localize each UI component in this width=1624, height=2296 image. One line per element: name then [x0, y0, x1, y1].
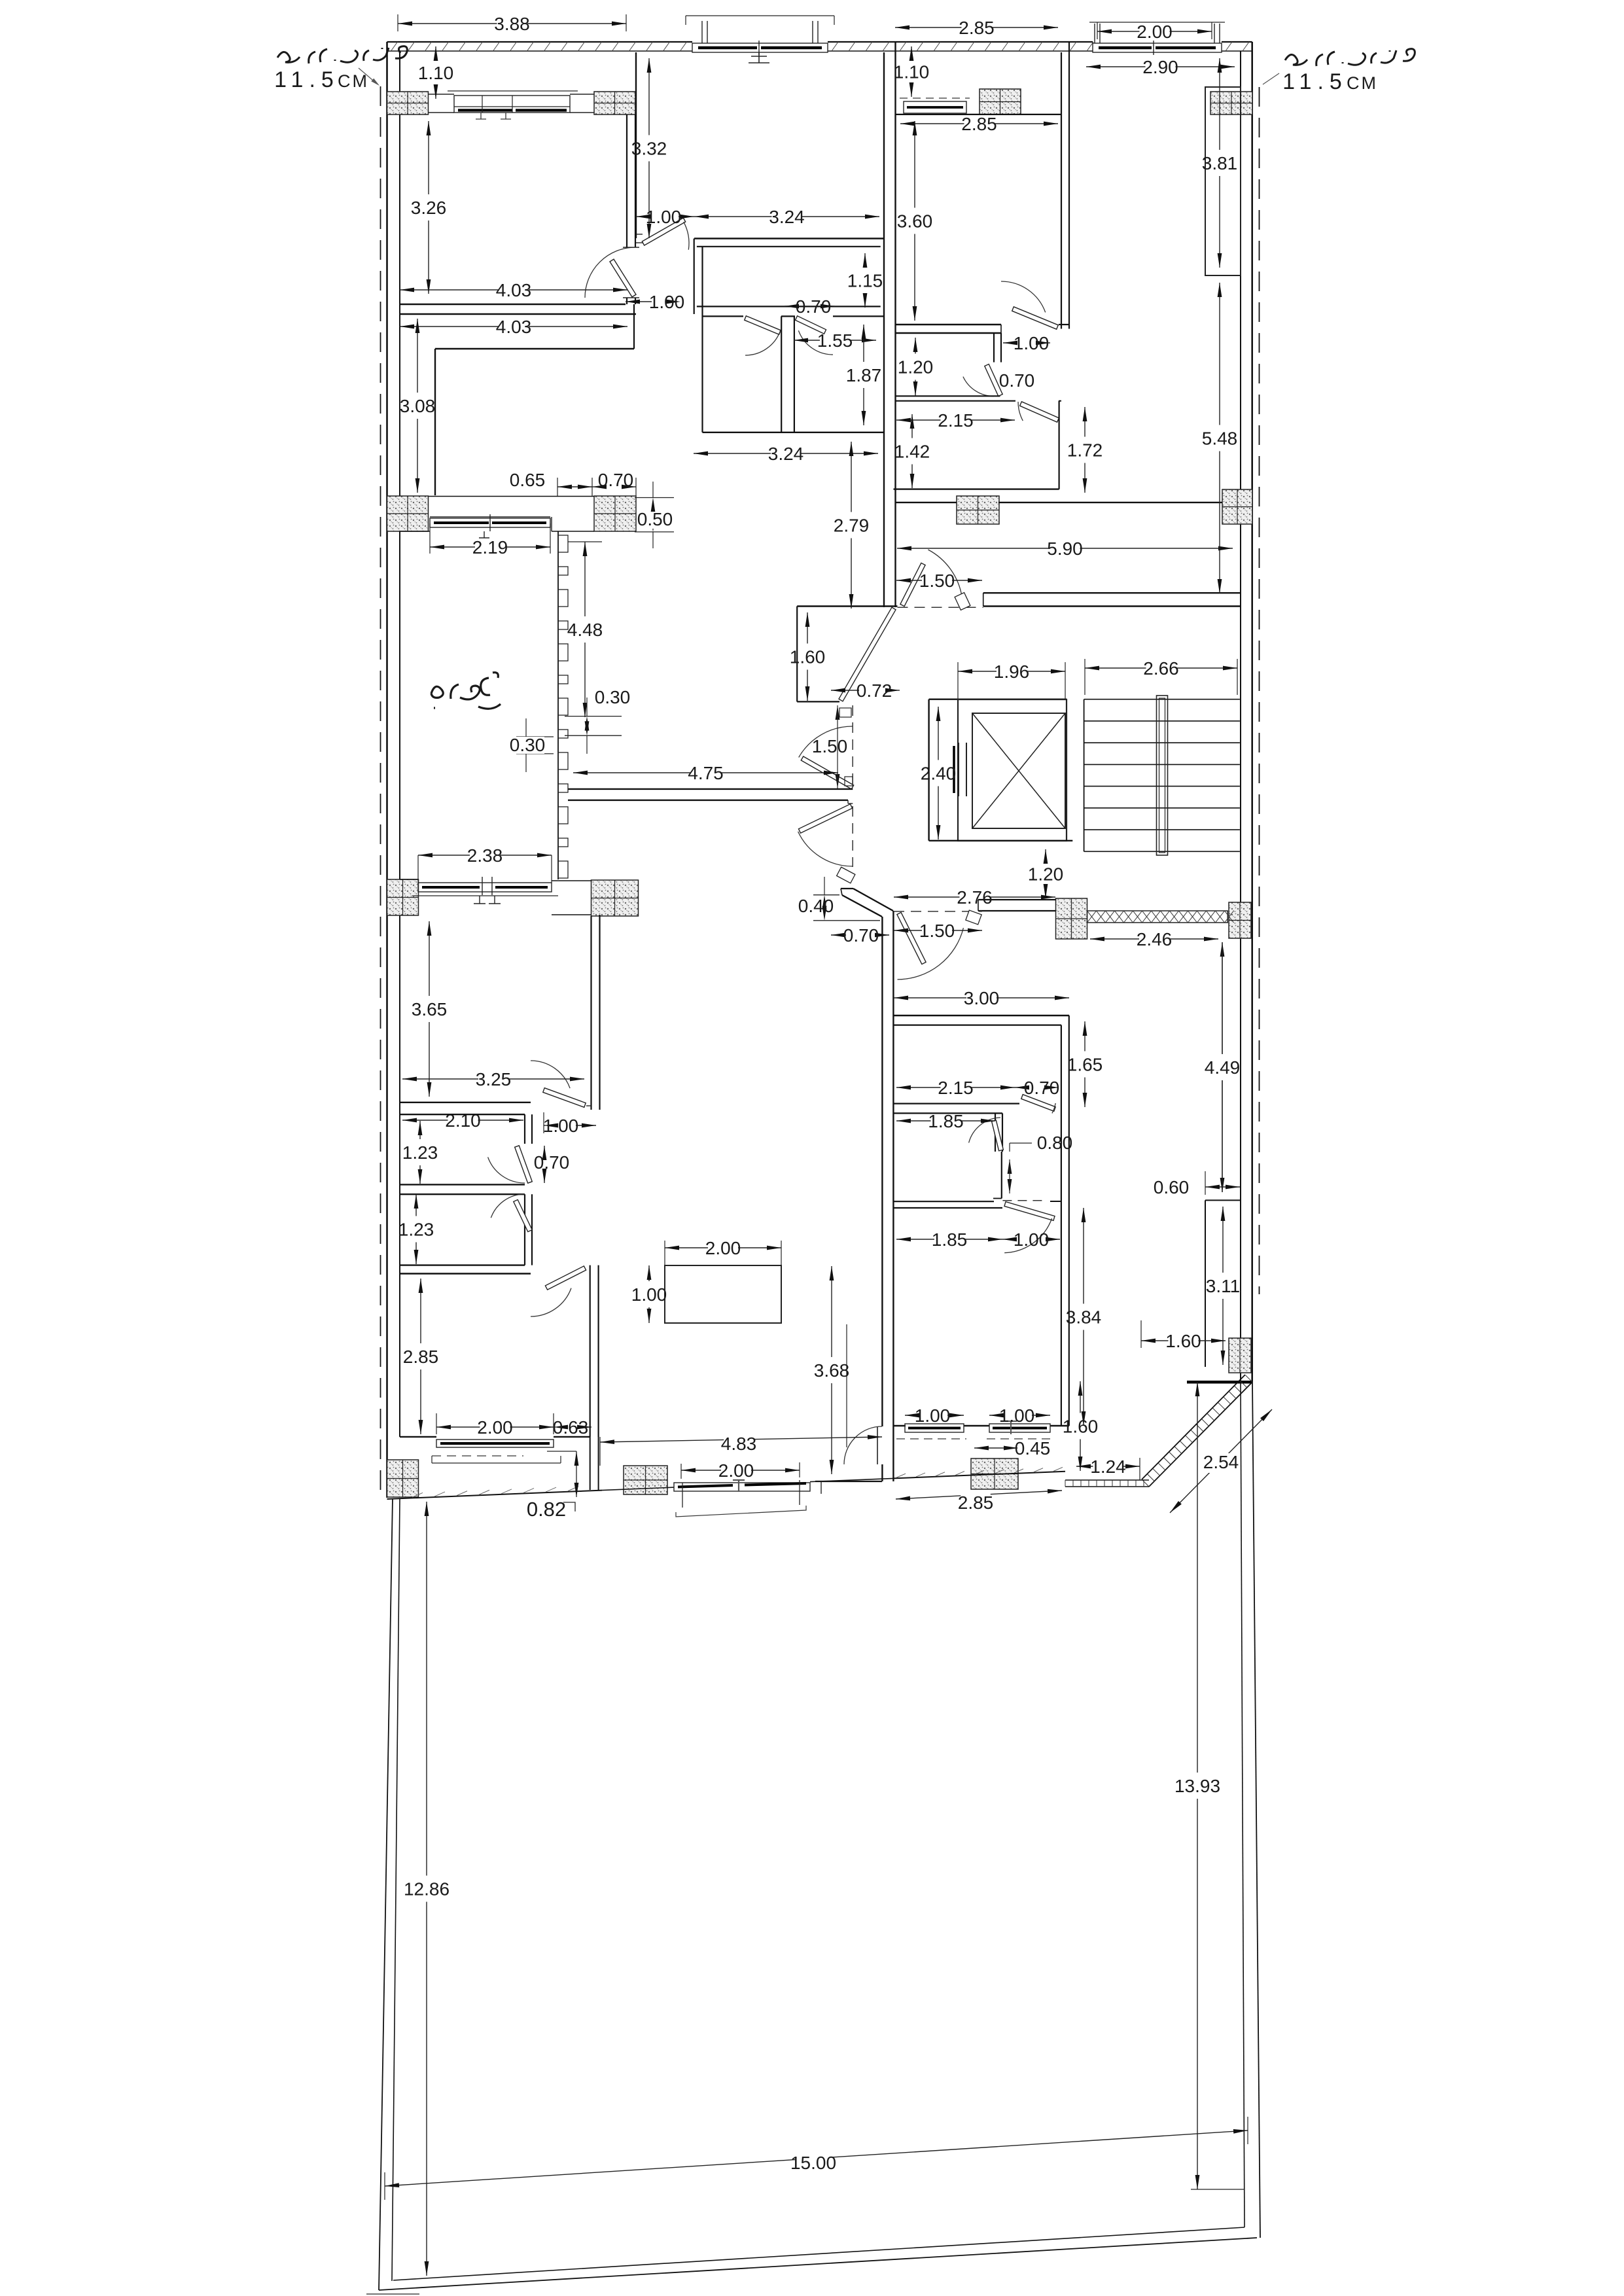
expansion joint dashed line (right) [1259, 87, 1260, 1294]
apartment entry door left unit (0.72/1.60) [839, 607, 896, 701]
svg-text:1.65: 1.65 [1067, 1055, 1103, 1075]
bedroom bottom wall + windows [894, 1425, 906, 1426]
svg-text:5.48: 5.48 [1202, 429, 1238, 449]
door 0.70 room1 [515, 1146, 533, 1183]
column C9 [387, 879, 419, 915]
bedroom1 bottom wall [400, 304, 626, 305]
svg-text:0.70: 0.70 [843, 925, 879, 945]
svg-text:0.70: 0.70 [534, 1152, 570, 1173]
top exterior wall (hatched) [387, 41, 693, 43]
door room2.85 [545, 1266, 586, 1290]
svg-text:2.00: 2.00 [1137, 22, 1173, 42]
svg-text:11.5: 11.5 [274, 67, 340, 92]
door 1.00 room3.60 [1012, 307, 1059, 329]
svg-text:4.83: 4.83 [721, 1434, 757, 1454]
svg-text:2.85: 2.85 [958, 1492, 994, 1513]
svg-text:0.82: 0.82 [527, 1498, 566, 1521]
svg-text:3.81: 3.81 [1202, 153, 1238, 173]
svg-text:2.10: 2.10 [445, 1110, 481, 1131]
svg-text:3.24: 3.24 [768, 444, 804, 464]
svg-text:3.68: 3.68 [814, 1360, 850, 1381]
svg-text:4.03: 4.03 [496, 317, 532, 337]
svg-text:2.54: 2.54 [1203, 1452, 1239, 1472]
svg-text:1.50: 1.50 [812, 736, 848, 756]
svg-text:2.79: 2.79 [834, 516, 870, 536]
svg-text:4.03: 4.03 [496, 280, 532, 300]
column C7 [957, 496, 999, 524]
svg-text:1.85: 1.85 [928, 1111, 964, 1131]
svg-text:3.60: 3.60 [897, 211, 933, 232]
svg-text:1.20: 1.20 [898, 357, 934, 378]
duct 3.81 [1205, 87, 1241, 275]
svg-text:1.42: 1.42 [894, 442, 930, 462]
column C12 [1229, 902, 1251, 938]
bay window 2.00 at bottom center [674, 1483, 810, 1491]
svg-text:1.96: 1.96 [994, 662, 1030, 682]
svg-text:1.00: 1.00 [631, 1284, 667, 1305]
svg-text:1.10: 1.10 [894, 62, 930, 82]
svg-text:3.24: 3.24 [769, 207, 805, 227]
svg-text:1.15: 1.15 [847, 271, 883, 291]
svg-text:2.19: 2.19 [472, 537, 508, 557]
corner ticks [366, 2293, 419, 2295]
apartment entry door right unit [898, 607, 983, 608]
svg-text:1.00: 1.00 [649, 292, 685, 312]
svg-text:4.75: 4.75 [688, 763, 724, 783]
bath walls [1058, 401, 1059, 489]
column C16 [1229, 1338, 1251, 1373]
svg-text:2.46: 2.46 [1137, 929, 1173, 949]
svg-text:11.5: 11.5 [1282, 69, 1348, 94]
oblique boundary with ties [1149, 1382, 1252, 1487]
pantry walls [894, 1112, 1002, 1114]
kitchen bottom wall + door [894, 1103, 1019, 1104]
svg-text:1.00: 1.00 [543, 1116, 579, 1136]
elevator shaft [929, 698, 1067, 699]
svg-text:1.60: 1.60 [1165, 1331, 1201, 1351]
hall bottom / toilets top wall [697, 306, 881, 307]
svg-text:4.49: 4.49 [1205, 1057, 1241, 1078]
bedroom door 1.00 [1002, 1200, 1046, 1201]
pantry door 0.80 [992, 1120, 1004, 1151]
stairs [1084, 699, 1085, 852]
svg-text:1.72: 1.72 [1067, 440, 1103, 461]
svg-text:0.30: 0.30 [510, 735, 546, 755]
toilets divider wall [781, 316, 782, 432]
elevator lobby wall [928, 699, 929, 841]
svg-text:2.00: 2.00 [718, 1460, 754, 1481]
svg-text:1.24: 1.24 [1090, 1457, 1126, 1477]
yard right boundary [1252, 1382, 1260, 2238]
terrace notch 0.60 [1205, 1199, 1241, 1201]
right exterior wall [1251, 42, 1253, 1382]
svg-text:1.20: 1.20 [1028, 864, 1064, 885]
kitchen island 2.00x1.00 [665, 1265, 781, 1323]
lightwell bottom wall [568, 788, 853, 790]
window W1 bedroom1 bay [448, 90, 578, 92]
door 1.50 upper (x1303) [801, 756, 853, 789]
svg-text:0.30: 0.30 [595, 687, 631, 707]
toilets bottom wall [703, 432, 885, 433]
svg-text:3.11: 3.11 [1206, 1276, 1240, 1296]
yard bottom boundary [379, 2238, 1257, 2290]
svg-text:3.65: 3.65 [412, 999, 448, 1019]
room 2.85 right wall [590, 1265, 591, 1437]
room3.60 bottom wall [896, 324, 1002, 325]
svg-text:1.00: 1.00 [1014, 333, 1050, 353]
kitchen right wall [1061, 1025, 1062, 1426]
left exterior wall [386, 42, 388, 1498]
svg-text:CM: CM [338, 71, 369, 91]
right unit terrace strip wall [896, 114, 1062, 115]
small window right unit top [900, 97, 970, 99]
svg-text:2.15: 2.15 [938, 410, 974, 431]
zigzag lightwell wall [557, 531, 559, 879]
toilet doors [745, 316, 781, 334]
svg-text:3.25: 3.25 [476, 1069, 512, 1089]
svg-text:1.00: 1.00 [999, 1405, 1035, 1426]
svg-text:12.86: 12.86 [404, 1879, 450, 1899]
living door to balcony corridor [881, 1464, 883, 1481]
svg-text:CM: CM [1347, 73, 1378, 93]
stairwell top wall [983, 592, 1241, 593]
svg-text:2.90: 2.90 [1142, 57, 1178, 77]
svg-text:3.84: 3.84 [1066, 1307, 1102, 1328]
svg-text:3.00: 3.00 [964, 988, 1000, 1008]
svg-text:3.26: 3.26 [411, 198, 447, 218]
room3.60 right wall [1061, 52, 1062, 329]
bedroom1 right wall [626, 115, 627, 247]
svg-text:1.50: 1.50 [919, 921, 955, 941]
column C8 [1222, 489, 1252, 524]
column C15 [971, 1458, 1018, 1489]
unit divider wall [883, 52, 885, 607]
pantry bottom wall [894, 1201, 994, 1202]
bedroom2 door [642, 218, 685, 245]
column C14 [624, 1466, 667, 1494]
rooms 1.23 walls [400, 1114, 525, 1115]
svg-text:2.15: 2.15 [938, 1078, 974, 1098]
svg-text:2.66: 2.66 [1143, 658, 1179, 679]
dimensions [398, 23, 497, 24]
svg-text:0.70: 0.70 [999, 370, 1035, 391]
svg-text:0.45: 0.45 [1015, 1438, 1051, 1458]
bottom exterior boundary (hatched, sloped) [387, 1491, 603, 1499]
svg-text:1.60: 1.60 [790, 647, 826, 667]
kitchen top wall [894, 1015, 1069, 1016]
lightwell window row (2.19) [430, 516, 550, 518]
svg-text:2.40: 2.40 [921, 764, 957, 784]
svg-text:1.23: 1.23 [402, 1142, 438, 1163]
living room right wall [881, 917, 883, 1426]
column C2 [594, 92, 635, 115]
room 3.65 walls [590, 916, 591, 1110]
svg-text:3.32: 3.32 [631, 139, 667, 159]
svg-text:1.50: 1.50 [919, 571, 955, 591]
title: darz enqita (left) [277, 46, 407, 63]
door 1.50 lower (x1303) [852, 806, 853, 867]
svg-text:2.38: 2.38 [467, 845, 503, 866]
lower-left exterior step walls [590, 1437, 591, 1490]
svg-text:1.85: 1.85 [932, 1229, 968, 1250]
title: darz enqita (right) [1285, 49, 1415, 66]
column C4 [1210, 92, 1252, 115]
svg-text:1.23: 1.23 [398, 1220, 434, 1240]
column C10 [591, 880, 639, 916]
svg-text:0.50: 0.50 [637, 509, 673, 529]
column C1 [387, 92, 429, 115]
noorgir (lightwell) label [431, 673, 501, 709]
column C6 [594, 496, 636, 531]
stair hall bottom wall [978, 899, 1056, 900]
svg-text:2.85: 2.85 [961, 114, 997, 134]
svg-text:1.00: 1.00 [915, 1405, 951, 1426]
elevator bottom wall [929, 840, 1073, 841]
svg-text:4.48: 4.48 [567, 620, 603, 640]
svg-text:0.72: 0.72 [856, 680, 892, 701]
WC 1.20 walls [993, 333, 995, 362]
lightwell lower window row (2.38) [400, 879, 419, 880]
column C3 [980, 89, 1021, 115]
hall-side dashed door lines [852, 705, 853, 788]
svg-text:5.90: 5.90 [1047, 539, 1083, 559]
bedroom2 left wall [635, 52, 637, 238]
svg-text:0.60: 0.60 [1154, 1177, 1190, 1197]
window W3 terrace top [1089, 22, 1225, 23]
svg-text:2.85: 2.85 [403, 1347, 439, 1367]
balcony door 1.50 (stair hall) [894, 911, 982, 912]
svg-text:2.76: 2.76 [957, 887, 993, 908]
svg-text:1.55: 1.55 [817, 330, 853, 351]
svg-text:2.00: 2.00 [705, 1238, 741, 1258]
column C5 [387, 496, 429, 531]
door 0.70 room2 [514, 1200, 532, 1232]
column C11 [1056, 898, 1087, 939]
svg-text:1.60: 1.60 [1063, 1417, 1099, 1437]
WC door 0.70 [985, 364, 1002, 397]
room 2.85 bottom wall + window 2.00 [400, 1436, 436, 1438]
svg-text:2.00: 2.00 [477, 1417, 513, 1438]
hall walls [697, 246, 881, 247]
svg-text:15.00: 15.00 [790, 2153, 836, 2173]
extension lines [846, 1324, 847, 1447]
svg-text:1.00: 1.00 [1014, 1229, 1050, 1250]
corridor 5.90 top wall [896, 502, 957, 503]
window W2 bedroom2 top [686, 15, 834, 16]
oblique wall at hall corner [841, 888, 853, 889]
bedroom1 door [610, 259, 636, 297]
corridor top wall (hall) [797, 605, 897, 607]
living bottom wall piece [815, 1481, 882, 1482]
svg-text:0.70: 0.70 [598, 470, 634, 490]
door room3.65 [543, 1088, 586, 1108]
svg-text:0.70: 0.70 [1024, 1078, 1060, 1098]
tiled strip [1065, 1479, 1149, 1481]
expansion joint dashed line (left) [380, 86, 381, 1498]
bath door [1020, 402, 1059, 422]
svg-text:1.10: 1.10 [418, 63, 454, 83]
balcony bottom thick edge [1187, 1381, 1252, 1384]
svg-text:13.93: 13.93 [1174, 1776, 1220, 1796]
stair handrail [1157, 696, 1168, 855]
svg-text:0.63: 0.63 [553, 1417, 589, 1438]
svg-text:1.87: 1.87 [846, 365, 882, 385]
svg-text:0.65: 0.65 [510, 470, 546, 490]
svg-text:2.85: 2.85 [959, 18, 995, 38]
column C13 [387, 1460, 419, 1497]
wall under bedroom1 (strip) [435, 348, 634, 349]
svg-text:3.08: 3.08 [400, 396, 436, 416]
walkway crosshatch strip 2.46 [1087, 911, 1228, 923]
svg-text:0.70: 0.70 [796, 296, 832, 317]
bedroom2 bottom wall [694, 238, 884, 239]
yard left boundary [379, 1498, 393, 2290]
svg-text:3.88: 3.88 [494, 14, 530, 34]
svg-text:1.00: 1.00 [646, 207, 682, 227]
svg-text:0.80: 0.80 [1037, 1133, 1073, 1153]
svg-text:0.40: 0.40 [798, 896, 834, 916]
